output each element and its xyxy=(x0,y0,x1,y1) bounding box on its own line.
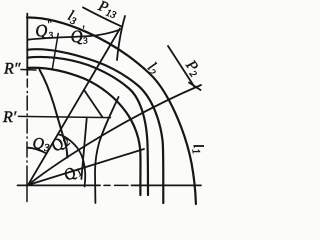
svg-text:P13: P13 xyxy=(95,0,120,21)
svg-text:l1: l1 xyxy=(189,142,204,155)
arc T2a xyxy=(27,49,163,203)
baseline xyxy=(18,184,101,186)
band upper line (Q3 band) xyxy=(27,30,119,40)
radial line 3 xyxy=(28,29,120,186)
cut line top (P13 long tick) xyxy=(117,16,125,60)
svg-text:R″: R″ xyxy=(3,61,21,78)
angle arc Q xyxy=(58,134,85,186)
vertical axis xyxy=(26,14,28,76)
P13 dimension line xyxy=(83,7,122,26)
angle arc Q3 (small) xyxy=(28,148,47,154)
outer arc T1 (l3-l2-l1 curve) xyxy=(27,17,196,204)
plumb line below R-prime line xyxy=(81,117,86,179)
P2 end tick xyxy=(189,83,201,91)
R-double-prime label line xyxy=(21,69,36,72)
arc T3 (R-double-prime arc) xyxy=(27,68,140,195)
radial line 1 xyxy=(28,149,144,185)
R-prime label line xyxy=(19,116,111,117)
svg-text:Q1: Q1 xyxy=(60,161,85,186)
radial line 2 xyxy=(28,85,201,185)
svg-text:R′: R′ xyxy=(2,109,17,126)
P2 dimension line xyxy=(168,46,195,87)
inner J curve xyxy=(95,97,119,203)
triangle mirror leg on R-prime line xyxy=(84,90,103,118)
inner spiral curve xyxy=(39,70,67,158)
svg-text:P2: P2 xyxy=(181,57,204,80)
radial tick through band xyxy=(52,34,58,69)
arc T2b xyxy=(27,57,148,195)
svg-text:Q3: Q3 xyxy=(33,136,51,155)
